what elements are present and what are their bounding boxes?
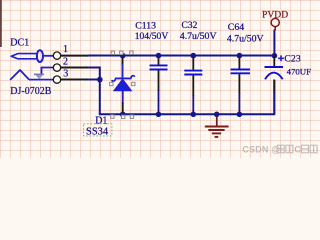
- junction C64 top: [237, 53, 243, 59]
- svg-text:C23: C23: [284, 53, 300, 64]
- svg-text:CSDN @: CSDN @: [242, 145, 280, 155]
- junction PVDD / C23: [272, 53, 278, 59]
- wire pin3 right segment: [88, 79, 101, 81]
- clipped sheet-edge wire at left border: [0, 0, 2, 47]
- power port PVDD stub: [274, 27, 276, 31]
- junction C113 top: [156, 53, 162, 59]
- selection handle top-mid: [120, 51, 123, 54]
- junction pin2/pin3: [97, 77, 103, 83]
- junction C32 bottom: [191, 112, 197, 118]
- capacitor C23 curved plate: [265, 73, 283, 80]
- selection handle mid-left: [110, 82, 113, 85]
- diode D1 bottom lead: [122, 91, 124, 104]
- wire top rail: [88, 55, 274, 57]
- capacitor C113 plates: [150, 64, 168, 66]
- capacitor C113 top pin: [158, 56, 160, 65]
- selection handle mid-right: [132, 82, 135, 85]
- pin 3 line: [61, 79, 89, 81]
- wire barrel to pin1 circle: [43, 55, 53, 57]
- diode D1 triangle: [114, 79, 132, 91]
- capacitor C113 bottom pin: [158, 70, 160, 91]
- svg-text:2: 2: [63, 57, 68, 68]
- power port PVDD circle: [271, 18, 279, 26]
- capacitor C64 top pin: [238, 56, 240, 69]
- svg-text:DJ-0702B: DJ-0702B: [10, 86, 51, 97]
- svg-text:C64: C64: [228, 22, 244, 33]
- wire pin2 to arrow (left then down): [42, 68, 54, 75]
- wire pin2 right + down segment: [88, 68, 100, 115]
- watermark glyph blocks: [277, 145, 293, 153]
- watermark: [242, 145, 317, 155]
- connector DC1 body: contact plate line to pin 3: [29, 79, 53, 81]
- connector DC1 body: barrel ellipse: [37, 50, 43, 62]
- connector DC1 body: arrow head on contact: [35, 75, 43, 79]
- pin 2 circle: [53, 64, 60, 71]
- capacitor C23 bottom pin: [273, 80, 275, 93]
- capacitor C23 straight plate: [265, 66, 284, 68]
- selection handle top-right: [130, 51, 133, 54]
- capacitor C23 top pin: [273, 56, 275, 67]
- svg-text:PVDD: PVDD: [262, 10, 288, 21]
- selection handle top-left: [111, 51, 114, 54]
- wire bottom rail: [99, 80, 274, 115]
- svg-text:C32: C32: [182, 21, 198, 31]
- junction C32 top: [191, 53, 197, 59]
- selection handle bottom-left: [111, 115, 114, 118]
- pin 1 line: [61, 55, 89, 57]
- selection box around SS34: [84, 124, 112, 136]
- capacitor C64 bottom pin: [238, 74, 240, 94]
- connector DC1 body: spring contact zigzag: [10, 70, 29, 80]
- pin 1 circle: [53, 52, 60, 59]
- svg-text:3: 3: [63, 69, 68, 80]
- capacitor C64 plates: [231, 69, 250, 71]
- svg-text:C: C: [294, 145, 301, 155]
- ground symbol bars: [205, 126, 229, 128]
- diode D1 schottky bar: [115, 77, 131, 79]
- capacitor C32 bottom pin: [192, 75, 194, 96]
- ground symbol stem: [216, 114, 218, 126]
- svg-text:D1: D1: [95, 115, 107, 126]
- capacitor C32 plates: [184, 70, 202, 72]
- selection handle bottom-mid: [122, 115, 125, 118]
- junction diode bottom: [120, 112, 126, 118]
- svg-text:DC1: DC1: [10, 37, 29, 48]
- pin 3 circle: [53, 76, 60, 83]
- C23 plus sign: [278, 57, 284, 59]
- junction diode top: [120, 53, 126, 59]
- junction C64 bottom: [237, 112, 243, 118]
- junction C113 bottom: [156, 112, 162, 118]
- power port PVDD wire: [273, 30, 275, 56]
- pin 2 line: [61, 67, 89, 69]
- junction ground: [214, 112, 220, 118]
- svg-text:4.7u/50V: 4.7u/50V: [180, 31, 217, 42]
- svg-text:104/50V: 104/50V: [135, 31, 169, 42]
- svg-text:4.7u/50V: 4.7u/50V: [227, 33, 264, 44]
- capacitor C32 top pin: [192, 56, 194, 70]
- svg-text:1: 1: [63, 44, 68, 55]
- selection handle bottom-right: [130, 115, 133, 118]
- svg-text:470UF: 470UF: [287, 66, 312, 76]
- diode D1 top pin: [122, 56, 124, 65]
- connector DC1 body: center-pin (pen shape): [11, 54, 37, 59]
